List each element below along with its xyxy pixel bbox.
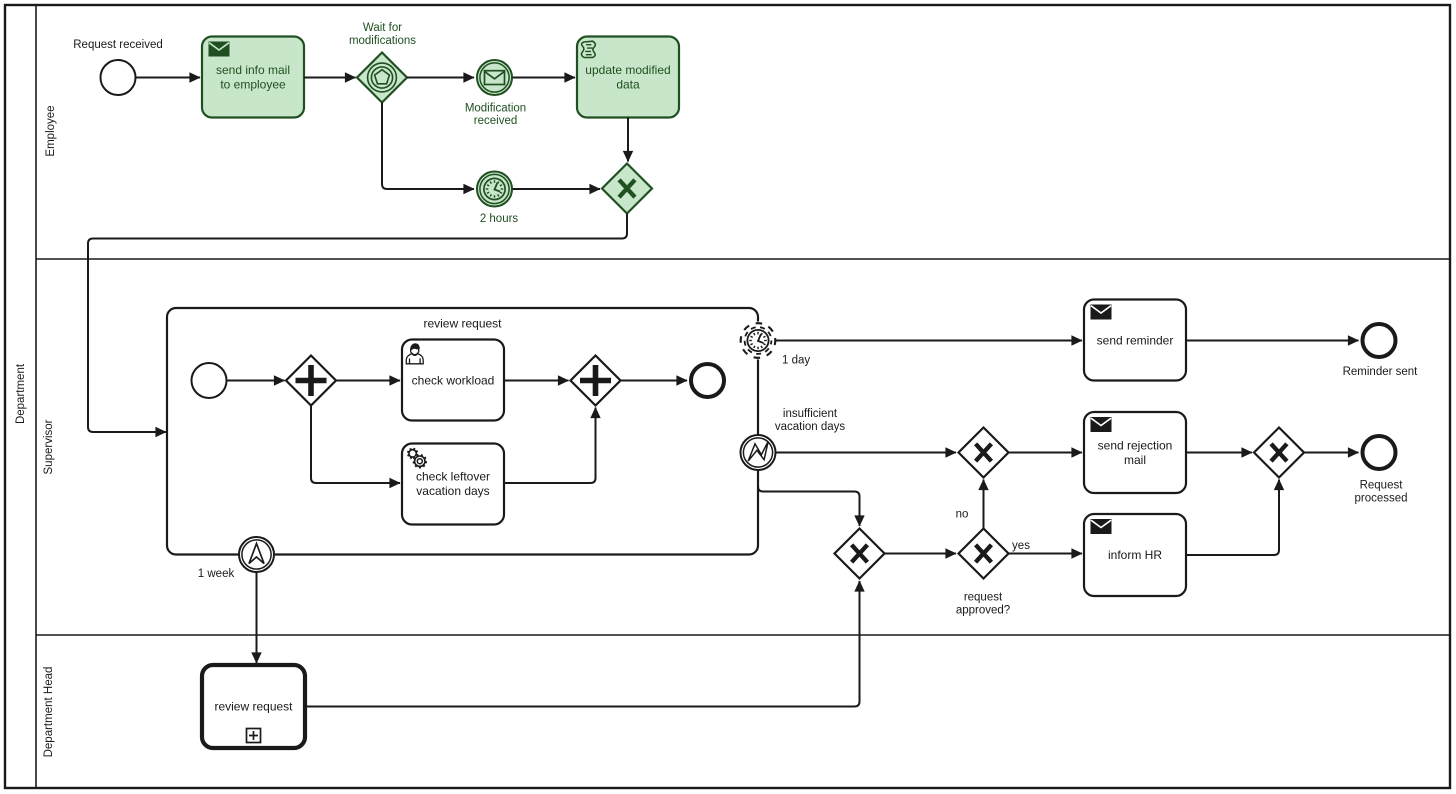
wire event gateway to message event bbox=[407, 77, 474, 79]
svg-text:Department: Department bbox=[15, 363, 27, 424]
task update modified data bbox=[577, 37, 679, 118]
svg-text:insufficient: insufficient bbox=[783, 408, 838, 420]
task send info mail to employee bbox=[202, 37, 304, 118]
end event subprocess bbox=[691, 364, 724, 397]
wire error event down to merge gateway D bbox=[758, 471, 860, 527]
svg-text:Reminder sent: Reminder sent bbox=[1343, 366, 1419, 378]
gateway exclusive C request approved bbox=[956, 529, 1010, 617]
boundary event escalation 1 week bbox=[198, 537, 274, 580]
svg-text:to employee: to employee bbox=[220, 78, 286, 92]
wire send rejection mail to gateway B bbox=[1186, 452, 1252, 454]
svg-text:data: data bbox=[616, 78, 640, 92]
boundary event timer non-interrupting 1 day bbox=[739, 322, 810, 367]
svg-text:send rejection: send rejection bbox=[1098, 439, 1173, 453]
subprocess review request bbox=[167, 308, 758, 555]
gateway parallel 1 bbox=[286, 356, 336, 406]
svg-text:review request: review request bbox=[214, 700, 293, 714]
boundary event error insufficient vacation days bbox=[741, 408, 846, 470]
svg-text:update modified: update modified bbox=[585, 63, 670, 77]
task send reminder bbox=[1084, 300, 1186, 381]
wire start to send info mail bbox=[136, 77, 200, 79]
svg-text:vacation days: vacation days bbox=[775, 421, 846, 433]
wire event gateway down to timer event bbox=[382, 103, 474, 190]
svg-text:check leftover: check leftover bbox=[416, 470, 490, 484]
wire yes from gateway C to inform HR bbox=[1009, 540, 1083, 554]
wire send reminder to end Reminder sent bbox=[1186, 340, 1359, 342]
task inform HR bbox=[1084, 514, 1186, 596]
wire exclusive gateway down-left into subprocess bbox=[88, 214, 627, 433]
svg-text:yes: yes bbox=[1012, 540, 1030, 552]
svg-text:no: no bbox=[956, 509, 969, 521]
wire update modified data down to exclusive gateway bbox=[627, 118, 629, 162]
wire send info mail to event gateway bbox=[304, 77, 356, 79]
wire error event to exclusive gateway A bbox=[776, 452, 957, 454]
svg-text:2 hours: 2 hours bbox=[480, 213, 519, 225]
wire check workload to parallel 2 bbox=[504, 380, 569, 382]
wire gateway B to end Request processed bbox=[1304, 452, 1359, 454]
lane Department Head bbox=[43, 667, 55, 758]
wire timer event to exclusive gateway bbox=[513, 188, 601, 190]
wire parallel 2 to sub end bbox=[621, 380, 688, 382]
svg-text:1 day: 1 day bbox=[782, 355, 810, 367]
lane Employee bbox=[45, 105, 57, 156]
wire review request up to gateway D bbox=[305, 581, 860, 707]
gateway exclusive D merge bbox=[835, 529, 885, 579]
wire gateway D to gateway C bbox=[885, 553, 957, 555]
svg-text:request: request bbox=[964, 591, 1003, 603]
svg-text:1 week: 1 week bbox=[198, 568, 235, 580]
task check leftover vacation days bbox=[402, 444, 504, 525]
wire parallel 1 to check workload bbox=[336, 380, 400, 382]
svg-text:Request: Request bbox=[1360, 480, 1404, 492]
svg-text:inform HR: inform HR bbox=[1108, 548, 1162, 562]
lane divider Supervisor/Department Head bbox=[36, 634, 1450, 636]
start event Request received bbox=[73, 39, 163, 95]
svg-text:approved?: approved? bbox=[956, 604, 1010, 616]
svg-text:Wait for: Wait for bbox=[363, 22, 402, 34]
svg-text:mail: mail bbox=[1124, 453, 1146, 467]
svg-text:send reminder: send reminder bbox=[1097, 334, 1174, 348]
event timer 2 hours bbox=[477, 172, 518, 226]
task review request collapsed subprocess bbox=[202, 665, 305, 748]
svg-text:Department Head: Department Head bbox=[43, 667, 55, 758]
svg-text:Request received: Request received bbox=[73, 39, 163, 51]
wire inform HR up to gateway B bbox=[1186, 480, 1279, 556]
svg-text:Modification: Modification bbox=[465, 103, 526, 115]
end event Reminder sent bbox=[1343, 324, 1419, 378]
event message catch Modification received bbox=[465, 60, 526, 127]
svg-text:received: received bbox=[474, 115, 517, 127]
end event Request processed bbox=[1354, 436, 1407, 504]
gateway exclusive A bbox=[959, 428, 1009, 478]
svg-text:processed: processed bbox=[1354, 492, 1407, 504]
svg-text:Supervisor: Supervisor bbox=[43, 419, 55, 474]
wire no from gateway C to gateway A bbox=[956, 480, 984, 529]
task check workload bbox=[402, 340, 504, 421]
wire escalation down to review request task bbox=[256, 573, 258, 664]
wire gateway A to send rejection mail bbox=[1009, 452, 1083, 454]
svg-text:check workload: check workload bbox=[412, 374, 495, 388]
wire boundary timer to send reminder bbox=[776, 340, 1083, 342]
wire parallel 1 down to check leftover bbox=[311, 406, 400, 484]
wire message event to update modified data bbox=[513, 77, 576, 79]
gateway parallel 2 bbox=[571, 356, 621, 406]
gateway exclusive green bbox=[602, 164, 652, 214]
wire sub start to parallel gateway 1 bbox=[227, 380, 285, 382]
task send rejection mail bbox=[1084, 412, 1186, 493]
gateway exclusive B bbox=[1254, 428, 1304, 478]
start event subprocess bbox=[192, 363, 227, 398]
lane divider Employee/Supervisor bbox=[36, 258, 1450, 260]
gateway event-based Wait for modifications bbox=[349, 22, 416, 103]
svg-text:modifications: modifications bbox=[349, 35, 416, 47]
svg-text:review request: review request bbox=[423, 317, 502, 331]
svg-text:send info mail: send info mail bbox=[216, 63, 290, 77]
svg-text:Employee: Employee bbox=[45, 105, 57, 156]
lane Supervisor bbox=[43, 419, 55, 474]
wire check leftover to parallel 2 bbox=[504, 408, 596, 484]
svg-text:vacation days: vacation days bbox=[416, 484, 489, 498]
